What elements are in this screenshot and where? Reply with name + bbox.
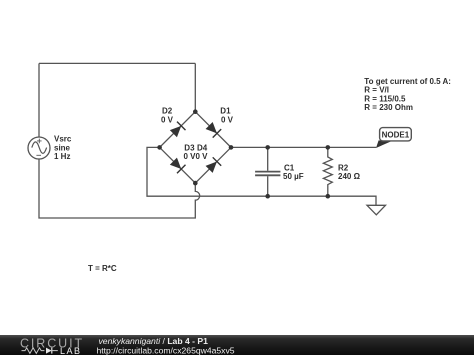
svg-text:C1: C1: [284, 163, 295, 172]
svg-text:R = 230 Ohm: R = 230 Ohm: [364, 103, 413, 112]
svg-text:NODE1: NODE1: [382, 130, 410, 139]
svg-text:http://circuitlab.com/cx265qw4: http://circuitlab.com/cx265qw4a5xv5: [97, 345, 235, 355]
svg-text:To get current of 0.5 A:: To get current of 0.5 A:: [364, 77, 451, 86]
wire top rail down to bridge: [194, 63, 196, 111]
svg-text:0 V: 0 V: [196, 152, 209, 161]
junction R2 top: [326, 145, 331, 150]
junction bridge right: [229, 145, 234, 150]
wire bridge right to NODE1: [231, 146, 376, 148]
node NODE1 flag: [376, 140, 391, 148]
svg-text:sine: sine: [54, 143, 71, 152]
svg-text:T = R*C: T = R*C: [88, 264, 117, 273]
resistor R2: [323, 147, 332, 196]
junction bridge bottom: [193, 181, 198, 186]
capacitor C1: [255, 147, 280, 196]
svg-text:0 V: 0 V: [221, 115, 234, 124]
logo resistor squiggle: [22, 348, 45, 354]
wire source top to top rail: [38, 63, 40, 137]
ground: [367, 205, 386, 215]
footer bar: [0, 335, 474, 355]
diode D1: [205, 121, 221, 137]
svg-text:Vsrc: Vsrc: [54, 135, 72, 144]
wire bridge left to bottom mid rail: [147, 147, 376, 205]
svg-text:R = V/I: R = V/I: [364, 86, 389, 95]
svg-text:1 Hz: 1 Hz: [54, 152, 70, 161]
junction C1 top: [265, 145, 270, 150]
diode D2: [169, 122, 185, 138]
voltage source Vsrc: [28, 137, 50, 159]
junction bridge top: [193, 109, 198, 114]
svg-text:240 Ω: 240 Ω: [338, 172, 361, 181]
logo diode: [46, 348, 52, 354]
wire top rail: [39, 62, 195, 64]
junction C1 bottom: [265, 194, 270, 199]
junction bridge left: [157, 145, 162, 150]
svg-text:0 V: 0 V: [184, 152, 197, 161]
diode D4: [205, 157, 221, 173]
svg-text:R = 115/0.5: R = 115/0.5: [364, 94, 406, 103]
junction R2 bottom: [326, 194, 331, 199]
diode D3: [169, 157, 185, 173]
svg-text:LAB: LAB: [60, 346, 82, 355]
wire bridge edges: [160, 112, 231, 183]
wire bridge bottom with hop over rail: [39, 159, 200, 218]
svg-text:50 µF: 50 µF: [283, 172, 304, 181]
svg-text:R2: R2: [338, 163, 349, 172]
svg-text:0 V: 0 V: [161, 115, 174, 124]
